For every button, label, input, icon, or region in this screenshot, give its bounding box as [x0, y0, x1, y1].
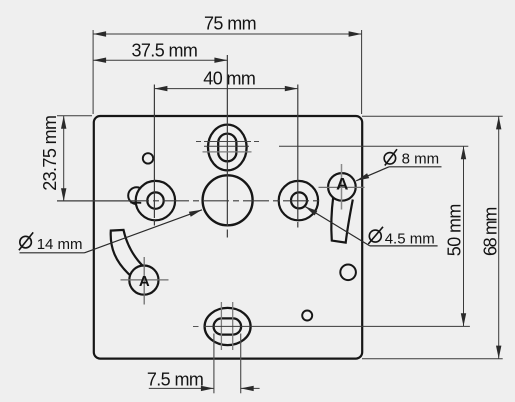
- label dia 8mm symbol: [384, 149, 397, 165]
- svg-text:68 mm: 68 mm: [480, 208, 500, 256]
- slot S1 top (outer oval): [208, 125, 247, 171]
- pilot hole P3 bottom-right: [302, 311, 312, 321]
- hole H2 left (attached small lobe): [128, 187, 145, 204]
- slot S2 bottom (outer oval): [205, 308, 251, 345]
- label dia 4.5mm underline: [370, 245, 438, 247]
- dimension 40mm arrows: [154, 86, 167, 91]
- centermark bottom slot left: [220, 302, 222, 350]
- dimension 68mm line: [498, 116, 500, 358]
- slot A1 top-right (tail outline): [331, 197, 352, 242]
- slot A2 bottom-left (circle end): [129, 266, 158, 295]
- centerline vertical main (through top slot and center hole): [226, 55, 228, 226]
- svg-text:37.5 mm: 37.5 mm: [131, 41, 197, 61]
- pilot hole P2 right: [340, 265, 356, 281]
- label dia 4.5mm symbol: [368, 227, 383, 244]
- dimension 7.5mm extension right: [240, 334, 242, 394]
- dimension 7.5mm extension left: [213, 334, 215, 394]
- svg-text:4.5 mm: 4.5 mm: [385, 230, 435, 247]
- dimension 23.75mm line: [63, 116, 65, 202]
- hole H3 right (inner circle dia 4.5): [291, 192, 307, 208]
- dimension 75mm extension right: [361, 30, 363, 114]
- hole H2 left (inner circle): [147, 192, 163, 208]
- svg-text:A: A: [139, 273, 150, 290]
- dimension 68mm arrows: [496, 116, 501, 129]
- slot A2 bottom-left (tail outline): [111, 230, 144, 275]
- centerline vertical right hole (40mm extension): [297, 85, 299, 221]
- leader dia 14mm: [85, 210, 203, 253]
- crosshair A2 vertical: [143, 257, 145, 305]
- dimension 7.5mm line left: [149, 387, 214, 389]
- dimension 50mm extension top: [204, 145, 249, 147]
- centerline horizontal main (through left, center, right holes): [57, 200, 123, 202]
- dimension 37.5mm arrows: [93, 58, 106, 63]
- slot A1 top-right (circle end): [328, 173, 356, 201]
- dimension 7.5mm line right: [241, 387, 260, 389]
- label dia 8mm underline: [389, 166, 442, 168]
- centermark top slot lower: [203, 151, 252, 153]
- dimension 23.75mm arrows: [61, 116, 66, 129]
- hole H2 left (lobe chord): [130, 202, 141, 204]
- slot S1 top (inner stadium): [218, 134, 236, 162]
- crosshair A2 horizontal: [121, 279, 169, 281]
- leader dia 4.5mm: [305, 206, 370, 246]
- svg-text:A: A: [336, 174, 348, 193]
- slot S2 bottom (inner stadium): [214, 318, 242, 334]
- pilot hole P1 top-left: [143, 153, 153, 163]
- dimension 50mm line: [463, 146, 465, 326]
- hole H3 right (outer circle): [279, 181, 318, 220]
- dimension 23.75mm extension top: [57, 115, 92, 117]
- slot A2 bottom-left (tail fill): [111, 230, 144, 275]
- label dia 14mm symbol: [19, 232, 33, 250]
- svg-text:75 mm: 75 mm: [204, 13, 256, 33]
- label dia 14mm underline: [20, 252, 85, 254]
- crosshair A1 horizontal: [319, 186, 365, 188]
- plate outline: [94, 116, 362, 359]
- leader dia 8mm: [356, 167, 389, 181]
- dimension 50mm extension bottom: [204, 325, 470, 327]
- dimension 7.5mm arrows: [201, 386, 214, 391]
- dimension 40mm line: [154, 88, 297, 90]
- slot A1 top-right (tail fill): [331, 197, 352, 242]
- hole H2 left (outer circle): [136, 181, 175, 220]
- dimension 50mm arrows: [461, 146, 466, 159]
- centerline vertical left hole (40mm extension): [153, 85, 155, 219]
- centerline bottom slot dash: [193, 326, 199, 328]
- hole H1 center dia 14: [203, 175, 253, 225]
- svg-text:23.75 mm: 23.75 mm: [40, 116, 60, 191]
- dimension 68mm extension bottom: [362, 358, 503, 360]
- dimension 68mm extension top: [362, 115, 503, 117]
- crosshair A1 vertical: [341, 164, 343, 210]
- centermark bottom slot right: [232, 302, 234, 350]
- svg-text:8 mm: 8 mm: [402, 151, 440, 168]
- svg-text:14 mm: 14 mm: [37, 236, 83, 253]
- svg-text:50 mm: 50 mm: [445, 204, 465, 256]
- centermark top slot upper: [196, 141, 259, 143]
- svg-text:7.5 mm: 7.5 mm: [147, 370, 203, 390]
- dimension 37.5mm line: [93, 59, 227, 61]
- dimension 23.75mm extension bottom: [57, 200, 130, 202]
- dimension 75mm arrows: [93, 31, 106, 36]
- dimension 75mm extension left: [92, 30, 94, 114]
- svg-text:40 mm: 40 mm: [203, 68, 255, 88]
- dimension 75mm line: [93, 33, 362, 35]
